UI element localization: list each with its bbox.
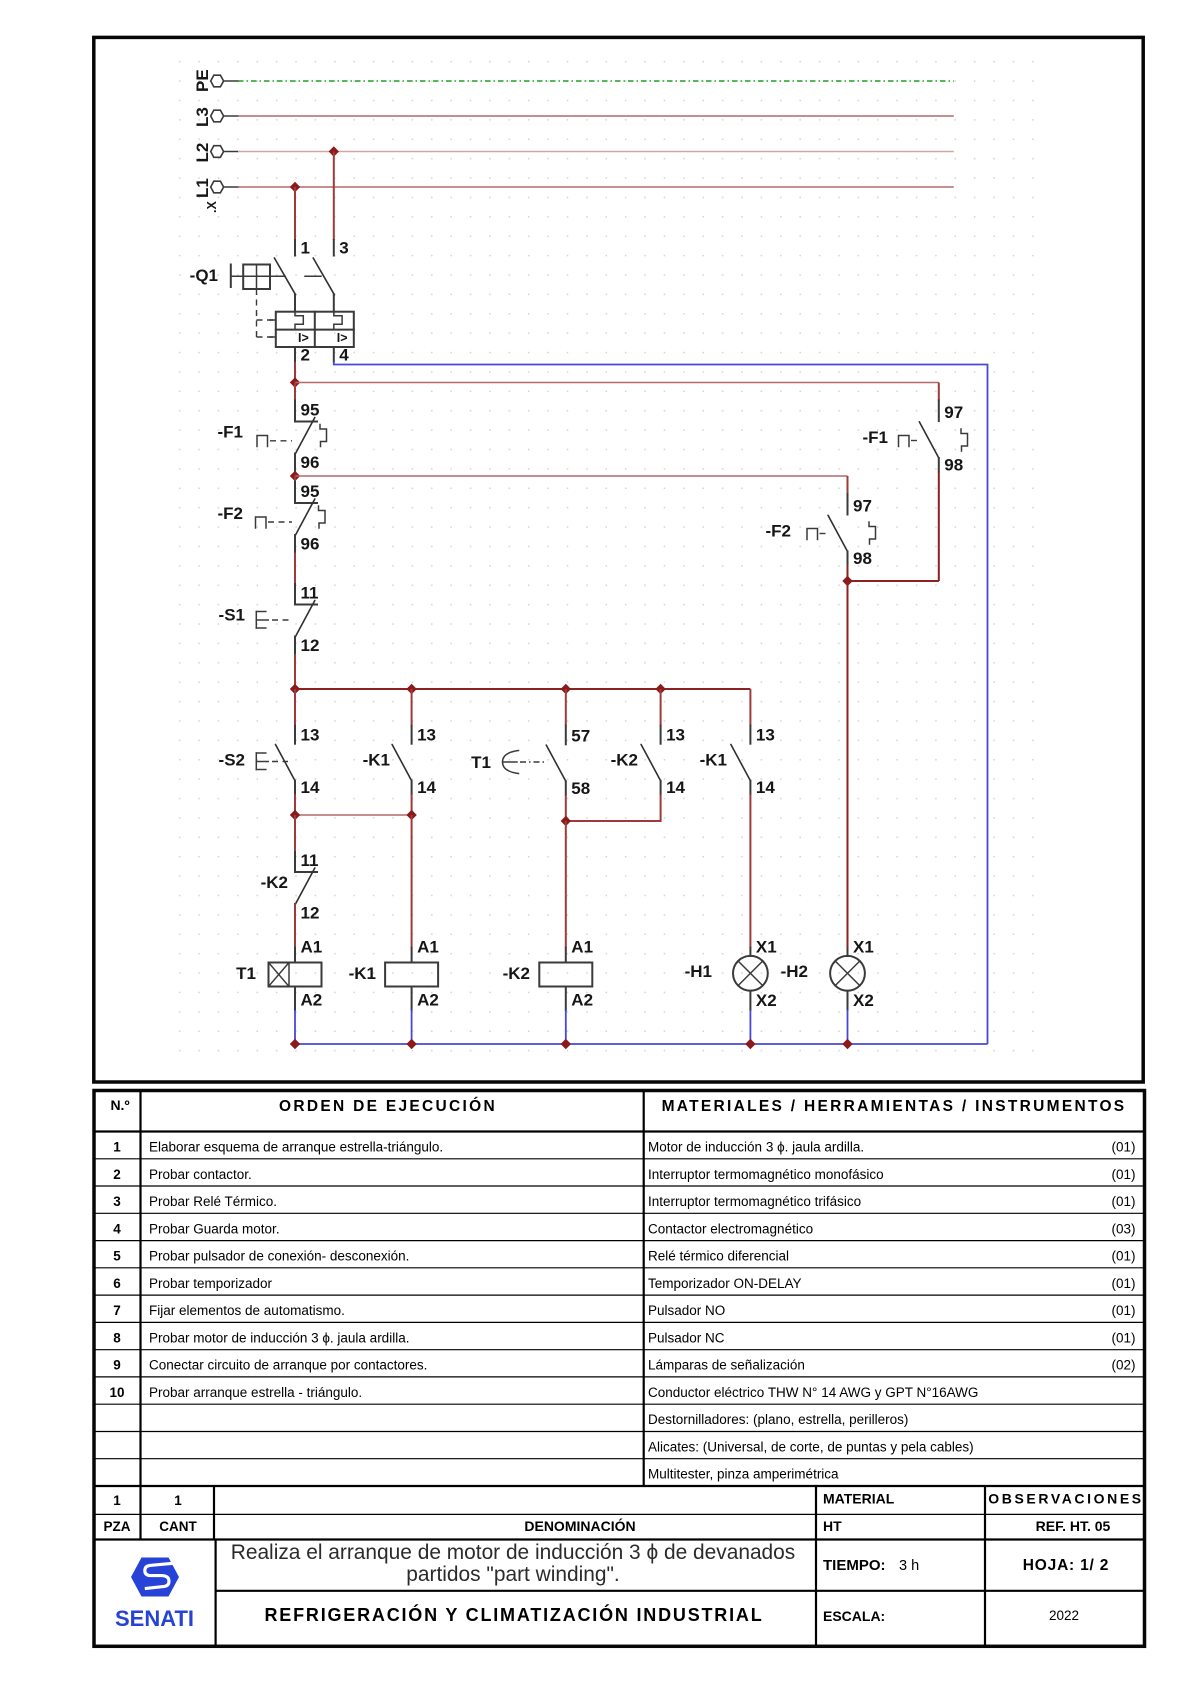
svg-text:L2: L2 xyxy=(193,143,212,163)
svg-text:A2: A2 xyxy=(417,991,439,1010)
wire H1 X2 to bus xyxy=(749,1010,751,1044)
junction bus at K2 branch xyxy=(655,684,665,694)
svg-text:HOJA: 1/ 2: HOJA: 1/ 2 xyxy=(1023,1557,1109,1574)
contact K2 NO 13-14 xyxy=(611,726,686,798)
wire stub S2 xyxy=(294,689,296,726)
svg-text:2: 2 xyxy=(301,346,310,365)
wire L2 to Q1 pin 3 xyxy=(333,152,335,241)
svg-text:A1: A1 xyxy=(417,938,439,957)
wire K2 14 down + link xyxy=(566,794,661,821)
svg-text:5: 5 xyxy=(113,1249,121,1264)
svg-text:Probar Relé Térmico.: Probar Relé Térmico. xyxy=(149,1194,277,1209)
svg-text:Probar motor de inducción 3 ϕ.: Probar motor de inducción 3 ϕ. jaula ard… xyxy=(149,1330,409,1345)
terminal L3 xyxy=(193,107,238,127)
svg-text:OBSERVACIONES: OBSERVACIONES xyxy=(988,1491,1143,1507)
lamp H1 X1-X2 xyxy=(685,938,777,1011)
node A junction xyxy=(290,377,300,387)
svg-text:ORDEN DE EJECUCIÓN: ORDEN DE EJECUCIÓN xyxy=(279,1097,497,1115)
overload block Q1 (I> I>) xyxy=(270,312,354,365)
coil K1 A1-A2 xyxy=(349,938,439,1011)
timer contact T1 NO 57-58 xyxy=(471,726,590,798)
wire L1 to Q1 pin 1 xyxy=(294,187,296,240)
junction T1 link xyxy=(561,816,571,826)
wire K1a 14 down xyxy=(411,794,413,815)
blue neutral bus xyxy=(295,1043,988,1045)
table borders xyxy=(94,1091,1145,1647)
junction bus H2 xyxy=(842,1039,852,1049)
breaker Q1 xyxy=(190,239,349,338)
svg-text:9: 9 xyxy=(113,1358,121,1373)
svg-text:PZA: PZA xyxy=(104,1519,131,1534)
wire K1 A2 to bus xyxy=(411,1010,413,1044)
svg-text:Probar contactor.: Probar contactor. xyxy=(149,1167,252,1182)
svg-text:partidos "part winding".: partidos "part winding". xyxy=(406,1563,619,1586)
svg-text:Destornilladores: (plano, estr: Destornilladores: (plano, estrella, peri… xyxy=(648,1412,908,1427)
junction L2 feed xyxy=(329,146,339,156)
svg-text:A2: A2 xyxy=(571,991,593,1010)
wire F2 to S1 xyxy=(294,553,296,585)
svg-text:-K1: -K1 xyxy=(349,964,376,983)
SENATI logo xyxy=(115,1558,194,1632)
svg-text:13: 13 xyxy=(417,726,436,745)
junction bus at S2 xyxy=(290,684,300,694)
pushbutton S1 NC 11-12 xyxy=(219,584,320,656)
wire T1 58 down xyxy=(565,795,567,821)
wire K2 A2 to bus xyxy=(565,1010,567,1044)
svg-text:97: 97 xyxy=(853,497,872,516)
wire PE (green earth line) xyxy=(238,80,954,82)
svg-text:14: 14 xyxy=(666,778,685,797)
svg-text:REF. HT. 05: REF. HT. 05 xyxy=(1036,1518,1111,1534)
svg-text:(01): (01) xyxy=(1111,1276,1135,1291)
wire node B rail to F2 NO branch xyxy=(295,475,848,477)
wire S2 14 down xyxy=(294,794,296,815)
svg-text:I>: I> xyxy=(337,331,348,345)
svg-text:Lámparas de señalización: Lámparas de señalización xyxy=(648,1358,805,1373)
svg-text:-H2: -H2 xyxy=(781,962,808,981)
svg-text:-F1: -F1 xyxy=(863,428,889,447)
svg-text:Probar Guarda motor.: Probar Guarda motor. xyxy=(149,1221,280,1236)
svg-text:-K2: -K2 xyxy=(611,751,638,770)
svg-text:.X: .X xyxy=(205,201,219,213)
svg-text:Relé térmico diferencial: Relé térmico diferencial xyxy=(648,1249,789,1264)
svg-text:96: 96 xyxy=(301,535,320,554)
svg-text:3 h: 3 h xyxy=(899,1558,919,1574)
svg-text:95: 95 xyxy=(301,482,320,501)
svg-text:PE: PE xyxy=(193,69,212,92)
svg-text:-F1: -F1 xyxy=(218,423,244,442)
wire S1 to bus xyxy=(294,654,296,689)
svg-text:11: 11 xyxy=(301,584,319,603)
contact F2 NO 97-98 (alarm) xyxy=(766,476,876,568)
svg-text:4: 4 xyxy=(339,346,349,365)
junction L1 feed xyxy=(290,182,300,192)
sheet border frame (schematic area) xyxy=(94,37,1143,1082)
svg-text:T1: T1 xyxy=(236,964,256,983)
svg-text:Conectar circuito de arranque: Conectar circuito de arranque por contac… xyxy=(149,1358,427,1373)
svg-text:58: 58 xyxy=(571,779,590,798)
svg-text:3: 3 xyxy=(113,1194,121,1209)
svg-text:(01): (01) xyxy=(1111,1249,1135,1264)
junction bus at T1 branch xyxy=(561,684,571,694)
coil T1 (timer) A1-A2 xyxy=(236,938,322,1011)
wire T1 A2 to bus xyxy=(294,1010,296,1044)
svg-text:-H1: -H1 xyxy=(685,962,712,981)
wire K1a link to coil K1 xyxy=(411,815,413,948)
svg-text:3: 3 xyxy=(339,239,348,258)
svg-text:-K2: -K2 xyxy=(503,964,530,983)
svg-text:Alicates: (Universal, de corte: Alicates: (Universal, de corte, de punta… xyxy=(648,1440,974,1455)
wire bus corner down to K1 13 xyxy=(749,689,751,726)
pushbutton S2 NO 13-14 xyxy=(219,726,320,798)
svg-text:11: 11 xyxy=(301,851,319,870)
lamp H2 X1-X2 xyxy=(781,938,874,1011)
svg-text:A1: A1 xyxy=(301,938,323,957)
svg-text:(01): (01) xyxy=(1111,1167,1135,1182)
junction bus K1 xyxy=(406,1039,416,1049)
svg-text:Pulsador NC: Pulsador NC xyxy=(648,1330,725,1345)
svg-text:Interruptor termomagnético mon: Interruptor termomagnético monofásico xyxy=(648,1167,884,1182)
svg-text:12: 12 xyxy=(301,904,320,923)
svg-text:95: 95 xyxy=(301,401,320,420)
svg-text:Conductor eléctrico THW N° 14: Conductor eléctrico THW N° 14 AWG y GPT … xyxy=(648,1385,978,1400)
wire L2 rail xyxy=(238,151,954,153)
svg-text:7: 7 xyxy=(113,1303,121,1318)
wire L1 rail xyxy=(238,186,954,188)
svg-text:Fijar elementos de automatismo: Fijar elementos de automatismo. xyxy=(149,1303,345,1318)
Q1 pin 4 xyxy=(333,347,335,362)
svg-text:14: 14 xyxy=(756,778,775,797)
wire Q1 pin4 blue run to right xyxy=(334,362,988,1045)
contact F1 NO 97-98 (alarm) xyxy=(863,383,968,475)
junction alarm link xyxy=(842,576,852,586)
node B junction xyxy=(290,471,300,481)
svg-text:A2: A2 xyxy=(301,991,323,1010)
svg-text:L1: L1 xyxy=(193,178,212,198)
svg-text:Interruptor termomagnético tri: Interruptor termomagnético trifásico xyxy=(648,1194,861,1209)
wire K1 14 to lamp H1 xyxy=(749,794,751,948)
svg-text:I>: I> xyxy=(298,331,309,345)
svg-text:DENOMINACIÓN: DENOMINACIÓN xyxy=(524,1517,635,1534)
wire link S2/K1a xyxy=(295,814,412,816)
terminal L1 xyxy=(193,178,238,198)
svg-text:14: 14 xyxy=(417,778,436,797)
svg-text:12: 12 xyxy=(301,636,320,655)
wire L3 rail xyxy=(238,115,954,117)
wire stub T1 contact xyxy=(565,689,567,726)
svg-text:-S1: -S1 xyxy=(219,606,245,625)
wire T1 link to coil K2 xyxy=(565,821,567,948)
wire F1 to node B xyxy=(294,471,296,476)
svg-text:6: 6 xyxy=(113,1276,121,1291)
svg-text:8: 8 xyxy=(113,1330,121,1345)
svg-text:96: 96 xyxy=(301,453,320,472)
svg-text:TIEMPO:: TIEMPO: xyxy=(823,1557,886,1574)
svg-text:ESCALA:: ESCALA: xyxy=(823,1608,885,1624)
junction bus at K1 branch xyxy=(406,684,416,694)
svg-text:2: 2 xyxy=(113,1167,121,1182)
svg-text:Elaborar esquema de arranque e: Elaborar esquema de arranque estrella-tr… xyxy=(149,1140,443,1155)
svg-text:Motor de inducción 3 ϕ. jaula: Motor de inducción 3 ϕ. jaula ardilla. xyxy=(648,1140,864,1155)
svg-text:(01): (01) xyxy=(1111,1140,1135,1155)
svg-text:2022: 2022 xyxy=(1049,1608,1079,1623)
svg-text:X2: X2 xyxy=(853,991,874,1010)
svg-text:1: 1 xyxy=(174,1493,182,1508)
svg-text:-K2: -K2 xyxy=(261,873,288,892)
svg-text:X1: X1 xyxy=(756,938,777,957)
svg-text:X2: X2 xyxy=(756,991,777,1010)
svg-text:57: 57 xyxy=(571,726,590,745)
svg-text:10: 10 xyxy=(109,1385,124,1400)
junction bus K2 xyxy=(561,1039,571,1049)
junction K1a link xyxy=(406,810,416,820)
svg-text:SENATI: SENATI xyxy=(115,1606,194,1631)
svg-text:-Q1: -Q1 xyxy=(190,266,218,285)
bus rail after S1 xyxy=(295,688,750,690)
svg-text:MATERIALES / HERRAMIENTAS / IN: MATERIALES / HERRAMIENTAS / INSTRUMENTOS xyxy=(662,1098,1127,1115)
svg-text:13: 13 xyxy=(301,726,320,745)
wire alarm link xyxy=(848,580,939,582)
wire alarm to lamp H2 xyxy=(847,581,849,948)
svg-text:98: 98 xyxy=(853,549,872,568)
svg-text:14: 14 xyxy=(301,778,320,797)
Q1 pin 2 xyxy=(294,347,296,362)
svg-text:CANT: CANT xyxy=(159,1519,197,1534)
junction S2 link xyxy=(290,810,300,820)
wire stub K1a xyxy=(411,689,413,726)
svg-text:REFRIGERACIÓN Y CLIMATIZACIÓN: REFRIGERACIÓN Y CLIMATIZACIÓN INDUSTRIAL xyxy=(265,1604,764,1625)
junction bus H1 xyxy=(745,1039,755,1049)
svg-text:1: 1 xyxy=(113,1493,121,1508)
svg-text:-S2: -S2 xyxy=(219,751,245,770)
contact K1 NO 13-14 (seal-in) xyxy=(363,726,437,798)
terminal L2 xyxy=(193,143,238,163)
svg-text:-K1: -K1 xyxy=(363,751,390,770)
svg-text:(01): (01) xyxy=(1111,1330,1135,1345)
wire stub K2 contact xyxy=(660,689,662,726)
wire node A rail to F1 NO branch xyxy=(295,382,939,384)
svg-text:13: 13 xyxy=(666,726,685,745)
svg-text:-F2: -F2 xyxy=(218,504,244,523)
svg-text:(01): (01) xyxy=(1111,1303,1135,1318)
svg-text:MATERIAL: MATERIAL xyxy=(823,1491,895,1507)
svg-text:T1: T1 xyxy=(471,753,491,772)
svg-text:HT: HT xyxy=(823,1518,842,1534)
contact F1 NC 95-96 xyxy=(218,383,327,473)
svg-text:(02): (02) xyxy=(1111,1358,1135,1373)
svg-text:Probar arranque estrella - tri: Probar arranque estrella - triángulo. xyxy=(149,1385,362,1400)
svg-text:-K1: -K1 xyxy=(700,751,727,770)
svg-text:Contactor electromagnético: Contactor electromagnético xyxy=(648,1221,813,1236)
svg-text:Multitester, pinza amperimétri: Multitester, pinza amperimétrica xyxy=(648,1467,839,1482)
svg-text:Probar temporizador: Probar temporizador xyxy=(149,1276,273,1291)
svg-text:Pulsador NO: Pulsador NO xyxy=(648,1303,725,1318)
contact F2 NC 95-96 xyxy=(218,476,326,554)
terminal PE xyxy=(193,69,238,92)
svg-text:N.º: N.º xyxy=(110,1097,129,1113)
wire F2 98 down xyxy=(847,565,849,581)
junction bus T1 xyxy=(290,1039,300,1049)
contact K1 NO 13-14 (lamp branch) xyxy=(700,726,776,798)
coil K2 A1-A2 xyxy=(503,938,593,1011)
svg-text:L3: L3 xyxy=(193,107,212,127)
svg-text:97: 97 xyxy=(944,403,963,422)
svg-text:X1: X1 xyxy=(853,938,874,957)
svg-text:98: 98 xyxy=(944,456,963,475)
wire Q1 pin2 to node A xyxy=(294,362,296,383)
wire F1 98 down xyxy=(938,472,940,582)
svg-text:Temporizador ON-DELAY: Temporizador ON-DELAY xyxy=(648,1276,802,1291)
svg-text:1: 1 xyxy=(113,1140,121,1155)
contact K2 NC 11-12 xyxy=(261,815,320,923)
svg-text:A1: A1 xyxy=(571,938,593,957)
svg-text:1: 1 xyxy=(301,239,310,258)
wire H2 X2 to bus xyxy=(847,1010,849,1044)
svg-text:(01): (01) xyxy=(1111,1194,1135,1209)
svg-text:4: 4 xyxy=(113,1221,121,1236)
svg-text:Probar pulsador de conexión- d: Probar pulsador de conexión- desconexión… xyxy=(149,1249,409,1264)
svg-text:-F2: -F2 xyxy=(766,522,792,541)
wire K2 12 to coil T1 xyxy=(294,904,296,948)
svg-text:13: 13 xyxy=(756,726,775,745)
svg-text:(03): (03) xyxy=(1111,1221,1135,1236)
svg-text:Realiza el arranque de motor d: Realiza el arranque de motor de inducció… xyxy=(231,1541,796,1564)
